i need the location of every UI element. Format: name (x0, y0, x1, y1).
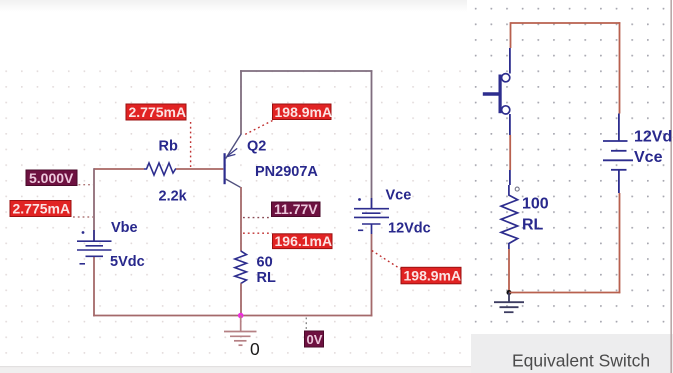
wire right vertical upper (to Vce) (371, 70, 373, 208)
bias annotation 11.77V (243, 201, 320, 217)
bias annotation 198.9mA (top) (243, 104, 332, 136)
collector diagonal (226, 179, 242, 188)
svg-text:198.9mA: 198.9mA (404, 267, 462, 283)
wire collector down to RL (240, 187, 242, 251)
svg-text:198.9mA: 198.9mA (275, 104, 333, 120)
svg-text:Equivalent Switch: Equivalent Switch (512, 351, 650, 371)
leader dotted (79, 184, 94, 186)
bias annotation 5.000V (26, 170, 93, 186)
window right border (670, 0, 672, 373)
leader dotted (372, 251, 401, 270)
wire right vertical lower (619, 193, 621, 293)
leader dotted (305, 318, 307, 331)
node junction (magenta) (238, 313, 244, 319)
resistor RL (100) (501, 185, 517, 249)
wire base horizontal (node to Rb to Q2 base) (94, 168, 223, 170)
wire left vertical upper (510, 22, 512, 48)
svg-text:60: 60 (257, 255, 273, 271)
leader dotted (243, 232, 272, 234)
svg-text:12Vdc: 12Vdc (388, 221, 431, 237)
leader dotted (243, 121, 273, 136)
svg-text:Q2: Q2 (247, 139, 266, 155)
wire top rail (240, 70, 372, 72)
bias annotation 2.775mA (left) (10, 201, 93, 218)
wire right vertical lower (Vce to bottom rail) (371, 224, 373, 234)
source Vce battery (left schematic) (354, 198, 389, 230)
node junction (black) (507, 290, 512, 295)
wire left vertical (Vbe branch) (93, 168, 95, 241)
wire RL to node (508, 249, 510, 293)
base bar (224, 153, 226, 184)
wire emitter to top rail (240, 70, 242, 134)
leader dotted (190, 122, 192, 168)
wire RL to ground node (240, 283, 242, 316)
emitter diagonal (226, 134, 242, 159)
plus dot Vbe (82, 231, 85, 234)
switch push-button (483, 74, 510, 114)
leader dotted (243, 217, 271, 219)
svg-text:PN2907A: PN2907A (255, 164, 318, 180)
svg-text:2.2k: 2.2k (159, 189, 188, 205)
svg-text:11.77V: 11.77V (274, 201, 318, 217)
contact terminal bottom (502, 106, 510, 114)
svg-text:Vce: Vce (634, 149, 663, 166)
bias annotation 0V (305, 318, 324, 348)
equivalent-switch caption panel (471, 334, 673, 373)
wire bottom rail (right) (509, 292, 620, 294)
bias annotation 196.1mA (243, 233, 332, 249)
wire bottom rail (93, 315, 372, 317)
wire below Vbe to bottom rail (93, 256, 95, 316)
svg-text:Rb: Rb (159, 139, 178, 155)
source Vce battery (right) (603, 141, 633, 170)
emitter arrow (PNP) (227, 148, 237, 156)
ground (right circuit) (494, 293, 524, 313)
leader dotted (73, 216, 93, 218)
bottom-left grey strip (0, 367, 471, 373)
bias annotation 2.775mA (top) (126, 104, 191, 168)
contact terminal top (502, 74, 510, 82)
svg-text:RL: RL (257, 270, 276, 286)
svg-text:100: 100 (522, 196, 549, 213)
bias annotation 198.9mA (right) (372, 251, 461, 284)
source Vbe battery (77, 230, 112, 264)
battery top lead (618, 114, 620, 142)
svg-text:5.000V: 5.000V (29, 170, 74, 186)
wire right vertical upper (619, 22, 621, 113)
svg-text:196.1mA: 196.1mA (275, 233, 333, 249)
ground 0 (224, 316, 257, 346)
svg-text:5Vdc: 5Vdc (110, 254, 145, 270)
wire below switch (509, 114, 511, 135)
plunger (483, 92, 500, 96)
transistor Q2 PN2907A (225, 134, 242, 188)
resistor RL (60) (235, 251, 247, 284)
actuator bar (499, 75, 502, 114)
svg-text:0V: 0V (307, 332, 323, 347)
svg-text:2.775mA: 2.775mA (13, 201, 71, 217)
svg-text:Vbe: Vbe (111, 220, 138, 236)
pin marker (515, 187, 519, 191)
svg-text:12Vdc: 12Vdc (634, 129, 673, 146)
svg-text:0: 0 (250, 339, 260, 359)
svg-text:RL: RL (522, 217, 544, 234)
wire top rail (right) (511, 22, 621, 24)
plus dot Vce (358, 198, 361, 201)
svg-text:Vce: Vce (386, 188, 412, 204)
resistor Rb (144, 163, 176, 175)
svg-text:2.775mA: 2.775mA (129, 104, 187, 120)
